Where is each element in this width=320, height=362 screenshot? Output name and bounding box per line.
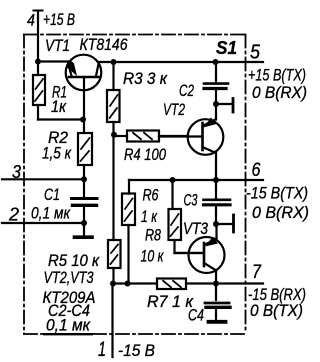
- svg-text:R8: R8: [145, 226, 161, 245]
- svg-text:5: 5: [250, 42, 261, 64]
- svg-text:10 к: 10 к: [141, 247, 165, 266]
- svg-text:7: 7: [252, 262, 262, 283]
- svg-text:0 В(ТХ): 0 В(ТХ): [250, 301, 303, 320]
- svg-text:VT2: VT2: [163, 100, 185, 119]
- svg-text:VT3: VT3: [183, 219, 208, 238]
- svg-text:C2: C2: [179, 81, 194, 100]
- svg-text:0,1 мк: 0,1 мк: [46, 316, 91, 335]
- svg-text:КТ8146: КТ8146: [80, 35, 128, 54]
- svg-text:1к: 1к: [51, 97, 67, 116]
- svg-text:VT1: VT1: [45, 36, 70, 55]
- svg-text:C3: C3: [184, 191, 198, 210]
- svg-text:3: 3: [12, 162, 21, 182]
- svg-text:1 к: 1 к: [141, 207, 158, 226]
- svg-text:R7 1 к: R7 1 к: [147, 292, 194, 311]
- svg-text:1,5 к: 1,5 к: [42, 144, 72, 163]
- svg-text:+15 В: +15 В: [43, 10, 75, 29]
- svg-text:S1: S1: [216, 38, 237, 58]
- svg-text:VT2,VT3: VT2,VT3: [44, 268, 94, 287]
- svg-text:C1: C1: [44, 185, 60, 204]
- svg-text:R4 100: R4 100: [124, 145, 166, 164]
- svg-text:1: 1: [98, 338, 106, 361]
- svg-text:4: 4: [27, 11, 35, 30]
- svg-text:R3 3 к: R3 3 к: [123, 69, 168, 88]
- svg-text:R6: R6: [143, 186, 159, 205]
- svg-text:6: 6: [252, 160, 261, 181]
- svg-text:2: 2: [8, 205, 19, 225]
- svg-text:0 В(RX): 0 В(RX): [252, 203, 309, 222]
- svg-text:0 В(RX): 0 В(RX): [252, 83, 307, 102]
- svg-text:-15 В: -15 В: [118, 341, 155, 360]
- svg-text:C4: C4: [188, 306, 204, 325]
- svg-text:0,1 мк: 0,1 мк: [31, 204, 71, 223]
- svg-text:-15 В(ТХ): -15 В(ТХ): [246, 184, 308, 203]
- svg-text:+15 В(ТХ): +15 В(ТХ): [248, 66, 306, 85]
